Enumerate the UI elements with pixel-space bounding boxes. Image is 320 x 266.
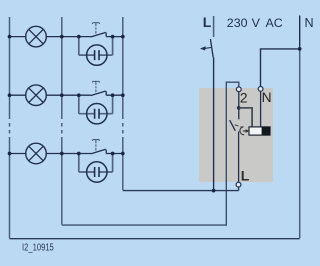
svg-text:2: 2	[240, 90, 248, 105]
svg-text:N: N	[262, 90, 272, 105]
svg-text:I2_10915: I2_10915	[22, 243, 54, 254]
svg-text:L: L	[203, 14, 212, 30]
svg-text:230: 230	[227, 16, 248, 30]
svg-text:AC: AC	[266, 16, 283, 30]
svg-text:N: N	[305, 16, 314, 30]
svg-text:V: V	[252, 16, 261, 30]
svg-text:L: L	[241, 167, 250, 183]
